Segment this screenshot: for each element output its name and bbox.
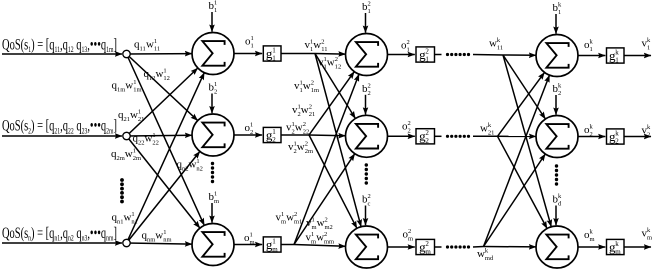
svg-text:1: 1 (138, 109, 141, 116)
neuron sum 2-1 (346, 34, 388, 76)
svg-text:1: 1 (214, 7, 217, 14)
svg-text:2: 2 (408, 120, 411, 127)
svg-text:n2: n2 (196, 166, 203, 173)
activation box gm^k layer3 row3 (607, 239, 625, 256)
wire q13 input1 to neuron1-3 (127, 54, 205, 225)
svg-text:1: 1 (131, 211, 134, 218)
wire q11 input1 to neuron1-1 (127, 53, 193, 55)
svg-text:1: 1 (133, 79, 136, 86)
svg-text:2: 2 (558, 90, 561, 97)
wire neuron3-2 to g box (578, 136, 605, 138)
wire dots to fan point row 1 (473, 54, 503, 57)
svg-text:m: m (425, 248, 431, 256)
wire v2w to neuron2-1 (309, 72, 354, 135)
svg-text:1: 1 (272, 128, 276, 136)
wire w to neuron3-1 (503, 54, 536, 56)
input node 1 (123, 50, 130, 57)
wire dots to fan point row 2 (473, 135, 498, 137)
neuron sum 3-2 (536, 116, 578, 158)
bias arrow layer2 row2 (365, 95, 367, 115)
svg-text:md: md (485, 255, 494, 262)
activation box g2^k layer3 row2 (607, 129, 625, 146)
svg-text:2: 2 (368, 193, 371, 200)
neuron sum 1-2 (192, 114, 234, 156)
svg-text:1: 1 (152, 132, 155, 139)
svg-text:1: 1 (272, 237, 276, 245)
svg-text:11: 11 (321, 46, 327, 53)
svg-text:1m: 1m (133, 87, 141, 94)
wire vmw to neuron2-3 (294, 245, 346, 247)
final output arrow row 3 (624, 246, 651, 248)
wire q22 input2 to neuron1-2 (127, 134, 193, 137)
bias arrow layer3 row1 (555, 14, 557, 34)
layer3 vertical ellipsis (555, 164, 558, 185)
wire qn3 input3 to neuron1-3 (127, 243, 193, 244)
svg-text:w: w (477, 248, 485, 260)
svg-text:1m: 1m (311, 87, 319, 94)
svg-text:11: 11 (140, 46, 146, 53)
activation box g1^2 layer2 row1 (416, 47, 435, 64)
wire g2-2 short segment (435, 135, 442, 137)
activation box g2^2 layer2 row2 (416, 129, 435, 146)
bias arrow layer3 row3 (555, 206, 557, 226)
svg-text:1: 1 (590, 46, 593, 53)
svg-text:1: 1 (311, 231, 314, 238)
svg-text:2: 2 (408, 228, 411, 235)
svg-text:k: k (615, 129, 619, 137)
activation box gm^2 layer2 row3 (416, 239, 435, 256)
svg-text:QoS(s1) = [q11,q12 q13,•••q1m]: QoS(s1) = [q11,q12 q13,•••q1m] (2, 36, 117, 54)
wire vmw to neuron2-1 (294, 74, 359, 244)
svg-text:w: w (301, 104, 309, 116)
wire v2w to neuron2-3 (309, 135, 357, 228)
wire q12 input1 to neuron1-2 (127, 54, 198, 121)
activation box gm^1 layer1 row3 (263, 237, 281, 254)
svg-text:2: 2 (324, 231, 327, 238)
svg-text:2: 2 (368, 90, 371, 97)
svg-text:21: 21 (488, 130, 495, 137)
horizontal ellipsis row 2 (446, 135, 470, 138)
input vertical ellipsis (120, 178, 124, 203)
wire neuron3-3 to g box (578, 246, 605, 248)
final output arrow row 1 (624, 55, 651, 57)
svg-text:2: 2 (425, 137, 429, 145)
activation box g2^1 layer1 row2 (263, 127, 281, 144)
svg-text:21: 21 (138, 116, 145, 123)
wire w to neuron3-1 (498, 72, 545, 136)
svg-text:1: 1 (368, 8, 371, 15)
svg-text:k: k (615, 48, 619, 56)
neuron sum 2-3 (346, 226, 388, 268)
svg-text:22: 22 (303, 129, 310, 136)
wire neuron3-1 to g box (578, 55, 605, 57)
svg-text:m: m (272, 245, 278, 253)
svg-text:QoS(s2) = [q21,q22 q23,•••q2m]: QoS(s2) = [q21,q22 q23,•••q2m] (2, 118, 117, 136)
svg-text:2: 2 (250, 129, 253, 136)
svg-text:1m: 1m (117, 87, 125, 94)
layer2 vertical ellipsis (365, 163, 368, 184)
final output arrow row 2 (624, 136, 651, 138)
bias arrow layer1 row3 (211, 203, 213, 223)
svg-text:w: w (303, 80, 311, 92)
svg-text:c: c (368, 201, 371, 208)
svg-text:2: 2 (590, 131, 593, 138)
svg-text:2: 2 (647, 132, 650, 139)
wire w to neuron3-2 (498, 135, 537, 137)
svg-text:2: 2 (615, 137, 619, 145)
svg-text:w: w (317, 217, 325, 229)
horizontal ellipsis row 1 (446, 53, 470, 56)
wire g1-3 to fan point (281, 244, 294, 246)
svg-text:1: 1 (214, 191, 217, 198)
svg-text:2: 2 (272, 136, 276, 144)
svg-text:2: 2 (407, 39, 410, 46)
neuron sum 1-3 (192, 224, 234, 266)
wire dots to fan point row 3 (473, 246, 484, 249)
input arrow row 2 (2, 135, 122, 137)
wire w to neuron3-3 (503, 55, 551, 227)
svg-text:2: 2 (303, 121, 306, 128)
svg-text:22: 22 (152, 140, 159, 147)
wire neuron2-1 to g box (388, 54, 415, 56)
svg-text:w: w (489, 38, 497, 50)
bias arrow layer3 row2 (555, 95, 557, 115)
wire qn1 input3 to neuron1-1 (127, 73, 205, 243)
svg-text:1: 1 (214, 81, 217, 88)
wire vmw to neuron2-2 (294, 154, 355, 245)
svg-text:w: w (124, 212, 132, 224)
wire w to neuron3-3 (498, 136, 548, 228)
svg-text:w: w (480, 123, 488, 135)
svg-text:1: 1 (251, 35, 254, 42)
svg-text:w: w (313, 39, 321, 51)
svg-text:1: 1 (558, 9, 561, 16)
neuron sum 3-3 (536, 226, 578, 268)
svg-text:m: m (250, 239, 255, 246)
svg-text:w: w (125, 148, 133, 160)
svg-text:2: 2 (425, 47, 429, 55)
svg-text:nm: nm (163, 237, 171, 244)
svg-text:m1: m1 (294, 219, 302, 226)
input arrow row 3 (2, 242, 122, 244)
svg-text:1: 1 (312, 217, 315, 224)
svg-text:2: 2 (321, 39, 324, 46)
wire neuron1-2 to g box (234, 134, 262, 136)
input node 2 (123, 132, 130, 139)
activation box g1^k layer3 row1 (607, 48, 625, 65)
svg-text:mm: mm (324, 239, 334, 246)
input node 3 (123, 239, 130, 246)
svg-text:1: 1 (163, 68, 166, 75)
svg-text:QoS(sn) = [qn1,qn2 qn3,•••qnm]: QoS(sn) = [qn1,qn2 qn3,•••qnm] (2, 225, 117, 243)
svg-text:w: w (156, 68, 164, 80)
svg-text:w: w (155, 230, 163, 242)
svg-text:w: w (130, 109, 138, 121)
svg-text:2: 2 (368, 1, 371, 8)
wire g1-1 to fan point (281, 53, 315, 55)
layer1 vertical ellipsis (211, 162, 214, 183)
svg-text:1: 1 (196, 158, 199, 165)
wire g2-3 short segment (435, 246, 442, 248)
svg-text:2: 2 (305, 141, 308, 148)
input arrow row 1 (2, 53, 122, 55)
neuron sum 1-1 (192, 33, 234, 75)
svg-text:1: 1 (250, 122, 253, 129)
svg-text:1: 1 (272, 46, 276, 54)
wire w to neuron3-3 (484, 246, 537, 248)
svg-text:1: 1 (272, 54, 276, 62)
wire v1w to neuron2-3 (315, 54, 361, 227)
svg-text:12: 12 (335, 64, 342, 71)
svg-text:2: 2 (425, 129, 429, 137)
activation box g1^1 layer1 row1 (263, 46, 281, 63)
svg-text:1: 1 (615, 56, 619, 64)
horizontal ellipsis row 3 (446, 245, 470, 248)
svg-text:2: 2 (368, 82, 371, 89)
wire w to neuron3-2 (503, 55, 545, 119)
svg-text:1: 1 (281, 211, 284, 218)
bias arrow layer2 row3 (365, 206, 367, 226)
svg-text:2: 2 (311, 80, 314, 87)
bias arrow layer1 row2 (211, 94, 213, 114)
neuron sum 3-1 (536, 35, 578, 77)
wire v1w to neuron2-2 (315, 54, 355, 119)
wire qn2 input3 to neuron1-2 (127, 151, 200, 243)
svg-text:2m: 2m (133, 155, 141, 162)
svg-text:w: w (327, 57, 335, 69)
svg-text:1: 1 (251, 42, 254, 49)
svg-text:12: 12 (163, 75, 170, 82)
svg-text:m: m (590, 236, 595, 243)
svg-text:w: w (295, 122, 303, 134)
bias arrow layer2 row1 (365, 13, 367, 33)
svg-text:2: 2 (294, 211, 297, 218)
svg-text:2m: 2m (117, 155, 125, 162)
wire q21 input2 to neuron1-1 (127, 68, 198, 136)
svg-text:w: w (286, 212, 294, 224)
svg-text:2m: 2m (305, 148, 313, 155)
svg-text:n1: n1 (131, 219, 138, 226)
svg-text:2: 2 (425, 240, 429, 248)
svg-text:w: w (316, 232, 324, 244)
neuron sum 2-2 (346, 115, 388, 157)
svg-text:1: 1 (407, 46, 410, 53)
wire neuron2-2 to g box (388, 135, 415, 137)
svg-text:w: w (146, 39, 154, 51)
svg-text:21: 21 (309, 111, 316, 118)
svg-text:1: 1 (133, 148, 136, 155)
svg-text:1: 1 (163, 229, 166, 236)
svg-text:2: 2 (335, 56, 338, 63)
svg-text:1: 1 (425, 55, 429, 63)
svg-text:k: k (615, 240, 619, 248)
wire v1w to neuron2-1 (315, 53, 346, 56)
bias arrow layer1 row1 (211, 12, 213, 32)
svg-text:w: w (145, 133, 153, 145)
svg-text:1: 1 (647, 45, 650, 52)
svg-text:m: m (408, 236, 413, 243)
svg-text:w: w (297, 141, 305, 153)
svg-text:m2: m2 (325, 224, 333, 231)
svg-text:11: 11 (497, 45, 503, 52)
wire neuron2-3 to g box (388, 246, 415, 248)
wire w to neuron3-1 (484, 75, 550, 246)
svg-text:m: m (647, 235, 652, 242)
wire w to neuron3-2 (484, 154, 546, 247)
svg-text:m: m (615, 248, 621, 256)
svg-text:1: 1 (214, 0, 217, 7)
wire neuron1-3 to g box (234, 244, 262, 246)
svg-text:w: w (189, 159, 197, 171)
svg-text:2: 2 (408, 128, 411, 135)
svg-text:w: w (125, 80, 133, 92)
wire g2-1 short segment (435, 54, 442, 56)
svg-text:1: 1 (154, 38, 157, 45)
svg-text:m: m (214, 198, 219, 205)
svg-text:nm: nm (147, 237, 155, 244)
wire v2w to neuron2-2 (309, 134, 346, 137)
svg-text:2: 2 (325, 217, 328, 224)
svg-text:1: 1 (250, 232, 253, 239)
svg-text:2: 2 (214, 89, 217, 96)
svg-text:11: 11 (154, 46, 160, 53)
svg-text:2: 2 (309, 104, 312, 111)
wire q23 input2 to neuron1-3 (127, 136, 200, 228)
wire neuron1-1 to g box (234, 53, 262, 55)
wire g1-2 to fan point (281, 134, 309, 136)
